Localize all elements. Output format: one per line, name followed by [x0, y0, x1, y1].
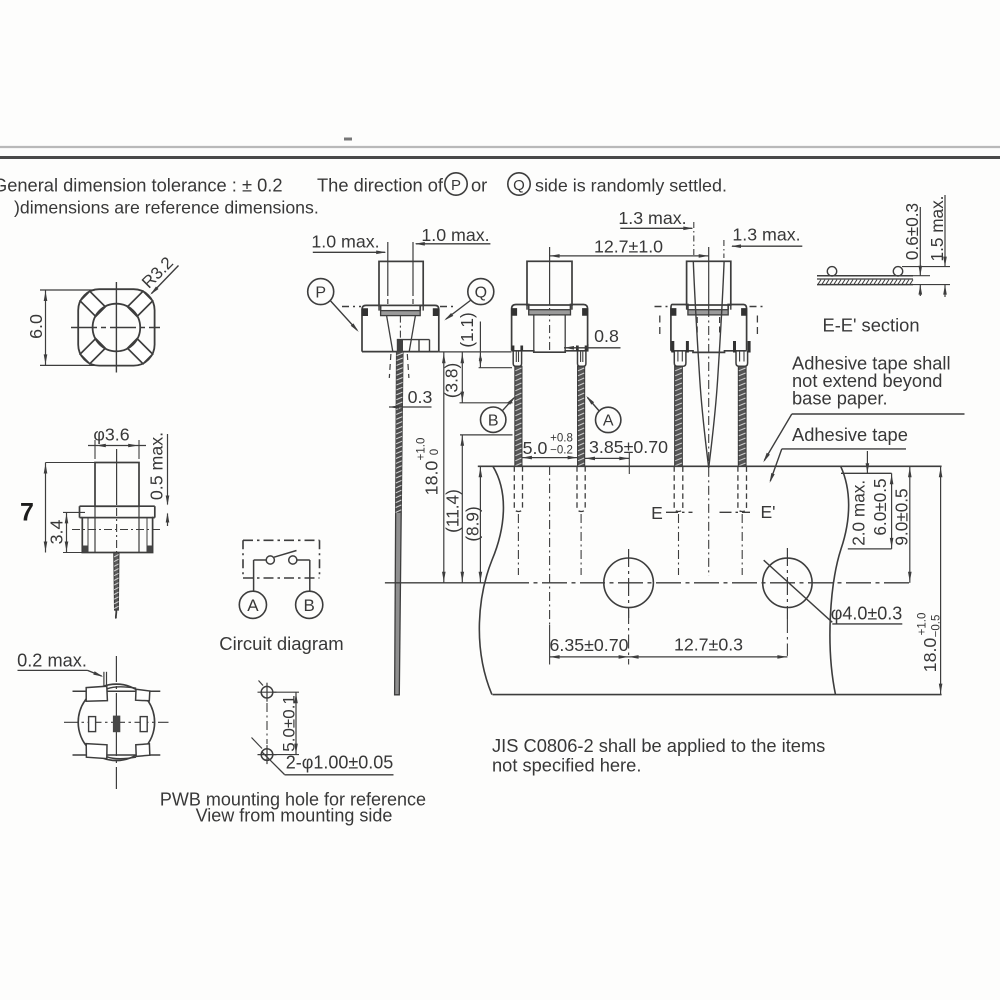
svg-text:(3.8): (3.8) [442, 363, 462, 398]
svg-text:1.0 max.: 1.0 max. [421, 225, 489, 245]
svg-text:7: 7 [20, 499, 34, 527]
svg-text:Q: Q [513, 177, 525, 194]
svg-text:5.0: 5.0 [523, 438, 548, 458]
svg-text:JIS C0806-2 shall be applied t: JIS C0806-2 shall be applied to the item… [492, 735, 825, 756]
svg-text:(1.1): (1.1) [457, 312, 477, 347]
svg-text:side is randomly settled.: side is randomly settled. [535, 176, 727, 196]
svg-text:2-φ1.00±0.05: 2-φ1.00±0.05 [286, 753, 394, 773]
svg-text:E-E' section: E-E' section [823, 315, 920, 336]
svg-text:Adhesive tape: Adhesive tape [792, 424, 908, 445]
svg-text:φ3.6: φ3.6 [93, 425, 129, 445]
svg-text:+0.8: +0.8 [550, 432, 573, 444]
svg-text:B: B [488, 413, 499, 430]
svg-text:E: E [651, 503, 663, 523]
svg-text:P: P [315, 285, 326, 302]
svg-text:A: A [247, 596, 259, 615]
svg-text:1.0 max.: 1.0 max. [311, 232, 379, 252]
svg-text:1.5 max.: 1.5 max. [927, 196, 947, 262]
svg-text:18.0: 18.0 [920, 638, 940, 673]
svg-text:General dimension tolerance :: General dimension tolerance : ± 0.2 [0, 175, 283, 196]
svg-text:E': E' [760, 502, 775, 522]
svg-text:+1.0: +1.0 [416, 438, 428, 461]
svg-text:−0.2: −0.2 [550, 444, 573, 456]
svg-text:View from mounting side: View from mounting side [196, 806, 393, 826]
svg-text:3.85±0.70: 3.85±0.70 [589, 437, 668, 457]
svg-text:9.0±0.5: 9.0±0.5 [891, 488, 911, 545]
svg-text:not specified here.: not specified here. [492, 755, 641, 776]
svg-text:Circuit diagram: Circuit diagram [219, 633, 343, 654]
svg-text:+1.0: +1.0 [917, 613, 929, 636]
svg-text:12.7±1.0: 12.7±1.0 [594, 237, 663, 257]
svg-text:(8.9): (8.9) [463, 506, 483, 541]
svg-text:0.3: 0.3 [408, 387, 433, 407]
svg-text:18.0: 18.0 [422, 461, 442, 496]
svg-text:A: A [603, 413, 614, 430]
svg-text:The direction of: The direction of [317, 175, 444, 196]
svg-text:B: B [304, 596, 315, 615]
svg-text:(11.4): (11.4) [443, 489, 463, 533]
svg-text:6.0: 6.0 [26, 314, 46, 339]
svg-text:0.6±0.3: 0.6±0.3 [902, 203, 922, 260]
svg-text:1.3 max.: 1.3 max. [732, 225, 800, 245]
svg-text:P: P [451, 177, 461, 194]
svg-text:12.7±0.3: 12.7±0.3 [674, 635, 743, 655]
svg-text:φ4.0±0.3: φ4.0±0.3 [831, 604, 903, 624]
svg-text:0.5 max.: 0.5 max. [147, 432, 167, 500]
svg-text:)dimensions are reference dime: )dimensions are reference dimensions. [14, 198, 319, 218]
svg-text:base paper.: base paper. [792, 388, 888, 409]
svg-text:0.8: 0.8 [594, 326, 619, 346]
svg-text:0.2 max.: 0.2 max. [17, 651, 87, 671]
svg-text:6.0±0.5: 6.0±0.5 [870, 478, 890, 535]
svg-text:2.0 max.: 2.0 max. [848, 480, 868, 546]
svg-text:5.0±0.1: 5.0±0.1 [280, 695, 299, 752]
svg-text:1.3 max.: 1.3 max. [618, 208, 686, 228]
svg-text:0: 0 [429, 449, 441, 455]
svg-text:3.4: 3.4 [47, 520, 67, 545]
svg-text:Q: Q [475, 285, 487, 302]
svg-text:or: or [471, 175, 487, 196]
svg-text:6.35±0.70: 6.35±0.70 [550, 635, 629, 655]
